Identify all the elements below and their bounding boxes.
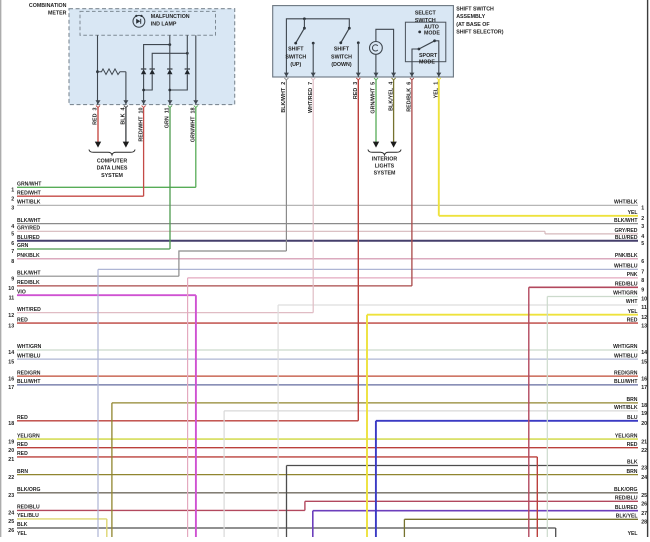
brace computer data lines system (89, 150, 135, 155)
wire YEL row R2 (439, 215, 638, 217)
svg-text:12: 12 (8, 313, 14, 319)
wire BLU row R20 (376, 420, 638, 422)
svg-text:GRY/RED: GRY/RED (17, 226, 40, 232)
svg-text:SPORT: SPORT (419, 53, 438, 59)
wire BLK row R23 (287, 465, 639, 467)
svg-text:YEL/GRN: YEL/GRN (17, 433, 40, 439)
page left border (0, 0, 2, 537)
wire BLK/YEL vert (403, 519, 405, 537)
wire lamp bottom to pin 5 (375, 54, 377, 77)
svg-text:METER: METER (48, 11, 67, 17)
node up switch pivot (303, 27, 306, 30)
svg-text:SWITCH: SWITCH (285, 54, 306, 60)
arrow RED to computer data lines (95, 142, 101, 148)
wire PNK row R8 (188, 277, 638, 279)
diode D1 (141, 69, 146, 74)
svg-text:SYSTEM: SYSTEM (101, 173, 123, 179)
svg-text:RED/BLU: RED/BLU (615, 282, 638, 288)
wire BLK vert (286, 466, 288, 538)
arrow BLK to computer data lines (123, 142, 129, 148)
svg-text:4: 4 (11, 224, 14, 230)
wire BLU/RED row L6-R5 (17, 240, 638, 242)
svg-text:BLU/WHT: BLU/WHT (614, 379, 638, 385)
wire GRN/WHT row L1 (17, 186, 196, 188)
svg-text:SHIFT: SHIFT (288, 47, 304, 53)
wire BRN row L22-R24 (17, 474, 638, 476)
wire RED row L20-R22 (17, 447, 638, 449)
wire YEL/BLU vert (106, 519, 108, 537)
svg-text:9: 9 (11, 276, 14, 282)
svg-text:8: 8 (11, 259, 14, 265)
svg-text:MODE: MODE (424, 31, 440, 37)
svg-text:RED: RED (17, 317, 28, 323)
svg-text:BLK/YEL: BLK/YEL (616, 514, 638, 520)
svg-text:24: 24 (8, 511, 14, 517)
svg-text:8: 8 (641, 278, 644, 284)
wire select to pin 6 (412, 49, 419, 77)
svg-text:SYSTEM: SYSTEM (374, 171, 396, 177)
svg-text:6: 6 (641, 259, 644, 265)
wire YEL/BLU row L25 (17, 518, 107, 520)
wire BLK vert bottom (555, 528, 557, 537)
wire D2 bottom jumper (144, 74, 153, 90)
svg-text:SHIFT: SHIFT (334, 47, 350, 53)
wire RED pin3 vert (357, 80, 359, 421)
svg-text:14: 14 (8, 350, 14, 356)
svg-text:BLU: BLU (627, 415, 638, 421)
svg-text:13: 13 (641, 323, 647, 329)
svg-text:14: 14 (641, 350, 647, 356)
node D1-D3 junction (168, 43, 171, 46)
wire BLK pin4 down (125, 108, 127, 143)
wire D1 top jumper (144, 45, 170, 69)
wire D2 top jumper (152, 53, 187, 69)
wire GRY/RED jog (544, 231, 546, 234)
svg-text:16: 16 (8, 376, 14, 382)
svg-text:MODE: MODE (419, 59, 435, 65)
wire RED/WHT pin10 vert (143, 108, 145, 197)
wire WHT/RED pin7 vert (312, 80, 314, 313)
svg-text:18: 18 (8, 421, 14, 427)
svg-text:BLK/ORG: BLK/ORG (614, 487, 638, 493)
svg-text:BLU/RED: BLU/RED (615, 235, 638, 241)
svg-text:BLU/RED: BLU/RED (17, 235, 40, 241)
wire WHT/BLU vert (97, 269, 99, 537)
svg-text:21: 21 (641, 439, 647, 445)
svg-text:SWITCH: SWITCH (331, 54, 352, 60)
node rail tap (303, 17, 306, 20)
svg-text:WHT/BLU: WHT/BLU (17, 353, 41, 359)
pin RED&#160;&#160;3 on shift switch assembly (356, 73, 361, 77)
wire BLK/WHT row L9 (17, 275, 179, 277)
wire WHT/GRN row R10 (547, 296, 638, 298)
wire GRY/RED row R4 right part (545, 233, 638, 235)
wire BLK/WHT row L4-R3 (17, 223, 638, 225)
svg-text:YEL/GRN: YEL/GRN (615, 433, 638, 439)
svg-text:15: 15 (8, 359, 14, 365)
node select blade lower (418, 48, 421, 51)
wire BRN vert (111, 403, 113, 537)
wire D3 lead to inner box (169, 35, 171, 69)
svg-text:SHIFT SWITCH: SHIFT SWITCH (456, 6, 494, 12)
wire WHT/BLK vert (223, 411, 225, 537)
node pin7 contact (312, 42, 315, 45)
svg-text:21: 21 (8, 457, 14, 463)
svg-text:MALFUNCTION: MALFUNCTION (151, 14, 190, 20)
wire RED row L18 (17, 420, 358, 422)
wire PNK vert (187, 278, 189, 537)
node down switch pivot (348, 27, 351, 30)
page right border (647, 0, 649, 537)
wire RED/BLU vert (528, 287, 530, 537)
svg-text:RED: RED (17, 415, 28, 421)
svg-text:PNK/BLK: PNK/BLK (17, 253, 40, 259)
svg-text:RED/BLU: RED/BLU (17, 505, 40, 511)
wire VIO row L11 (17, 294, 196, 296)
wire BLK/ORG row L23-R25 (17, 492, 638, 494)
svg-text:WHT/GRN: WHT/GRN (613, 344, 638, 350)
illumination lamp symbol (370, 42, 383, 55)
svg-text:BLU/WHT: BLU/WHT (17, 379, 41, 385)
svg-text:22: 22 (641, 448, 647, 454)
wire RED/BLU row L24 (17, 509, 305, 511)
svg-text:YEL: YEL (628, 309, 638, 315)
wire lamp right lead to pin 18 (195, 35, 197, 104)
node resistor left junction (96, 70, 99, 73)
select switch inner box (405, 22, 445, 62)
wire pin3 contact down (357, 43, 359, 77)
pin BLK/WHT&#160;&#160;2 on shift switch assembly (284, 73, 289, 77)
svg-text:(DOWN): (DOWN) (331, 62, 352, 68)
wire BLU/RED vert (312, 511, 314, 537)
pin 4 on combination meter (123, 100, 128, 104)
wire BLK/YEL row R28 (404, 518, 638, 520)
wire YEL/GRN row L19-R21 (17, 438, 638, 440)
svg-text:2: 2 (641, 216, 644, 222)
svg-text:INTERIOR: INTERIOR (372, 157, 397, 163)
svg-text:3: 3 (641, 224, 644, 230)
wire WHT/RED row L12 (17, 312, 313, 314)
node select blade upper (433, 39, 436, 42)
svg-text:RED/GRN: RED/GRN (17, 370, 41, 376)
wire WHT/BLU row R7 (98, 268, 638, 270)
node pin3 contact (357, 41, 360, 44)
switch blade select (419, 41, 435, 49)
wire WHT/GRN vert (546, 297, 548, 538)
wire BLU vert (375, 421, 377, 537)
svg-text:BRN: BRN (626, 397, 637, 403)
svg-text:27: 27 (641, 511, 647, 517)
svg-text:1: 1 (641, 206, 644, 212)
svg-text:WHT/BLK: WHT/BLK (17, 200, 41, 206)
pin WHT/RED&#160;&#160;7 on shift switch assembly (311, 73, 316, 77)
right wire color labels (613, 200, 638, 537)
svg-text:23: 23 (8, 493, 14, 499)
left wire color labels (17, 182, 42, 538)
wire RED/BLK row L10 (17, 285, 412, 287)
pin 3 on combination meter (96, 100, 101, 104)
svg-text:GRN: GRN (17, 243, 29, 249)
wire YEL row R12 (367, 314, 638, 316)
wire BLK/WHT pin2 vert (285, 80, 287, 251)
wire BRN row R18 (112, 402, 638, 404)
svg-text:(AT BASE OF: (AT BASE OF (456, 22, 490, 28)
pin RED/BLK&#160;&#160;6 on shift switch assembly (409, 73, 414, 77)
svg-text:GRY/RED: GRY/RED (614, 228, 637, 234)
svg-text:12: 12 (641, 315, 647, 321)
svg-text:25: 25 (641, 493, 647, 499)
wire select to pin 1 (435, 41, 439, 77)
switch blade shift up (296, 28, 305, 43)
svg-text:10: 10 (8, 286, 14, 292)
shift switch assembly box (273, 6, 454, 77)
wire BLU/RED row R27 (313, 510, 638, 512)
svg-text:15: 15 (641, 359, 647, 365)
svg-text:WHT: WHT (626, 299, 638, 305)
svg-text:WHT/GRN: WHT/GRN (613, 291, 638, 297)
wire PNK/BLK row L8-R6 (17, 258, 638, 260)
wire WHT row R11 (278, 304, 638, 306)
wire WHT/BLK row L3-R1 (17, 204, 638, 206)
svg-text:BLK/ORG: BLK/ORG (17, 487, 41, 493)
svg-text:6: 6 (11, 241, 14, 247)
wire D1 bottom to pin 10 (143, 74, 145, 104)
svg-text:17: 17 (641, 385, 647, 391)
svg-text:BLK/WHT: BLK/WHT (17, 270, 41, 276)
svg-text:5: 5 (11, 232, 14, 238)
node down switch blade end (339, 41, 342, 44)
wire BLK row L26 (17, 527, 556, 529)
combination meter box (69, 9, 235, 105)
svg-text:PNK/BLK: PNK/BLK (615, 253, 638, 259)
svg-text:RED: RED (627, 317, 638, 323)
svg-text:23: 23 (641, 466, 647, 472)
svg-text:20: 20 (8, 448, 14, 454)
diode D4 (185, 69, 190, 74)
svg-text:19: 19 (641, 411, 647, 417)
svg-text:YEL: YEL (17, 531, 27, 537)
wire RED/BLU jog vert (304, 501, 306, 510)
diode D3 (167, 69, 172, 74)
svg-text:YEL/BLU: YEL/BLU (17, 513, 39, 519)
wire YEL pin1 vert (438, 80, 440, 216)
svg-text:24: 24 (641, 475, 647, 481)
svg-text:22: 22 (8, 475, 14, 481)
svg-text:9: 9 (641, 288, 644, 294)
svg-text:RED: RED (627, 442, 638, 448)
wire WHT vert (277, 305, 279, 537)
wire RED row L13-R13 (17, 322, 638, 324)
wire BLU/WHT row L17-R17 (17, 384, 638, 386)
wire RED pin3 down (97, 108, 99, 143)
wire resistor to pin 4 (125, 72, 127, 105)
svg-text:28: 28 (641, 520, 647, 526)
svg-text:11: 11 (9, 295, 15, 301)
left wire number labels (8, 188, 14, 542)
pin BLK/YEL&#160;&#160;4 on shift switch assembly (391, 73, 396, 77)
wire RED/BLU row R26 (305, 500, 638, 502)
diode D2 (150, 69, 155, 74)
svg-text:5: 5 (641, 241, 644, 247)
wire VIO vert (195, 295, 197, 537)
svg-text:1: 1 (11, 188, 14, 194)
node pin11 lower junction (168, 89, 171, 92)
svg-text:IND LAMP: IND LAMP (151, 22, 177, 28)
node up switch blade end (294, 42, 297, 45)
wire YEL vert (366, 315, 368, 537)
pin YEL&#160;&#160;1 on shift switch assembly (436, 73, 441, 77)
pin GRN/WHT&#160;&#160;5 on shift switch assembly (374, 73, 379, 77)
svg-text:18: 18 (641, 403, 647, 409)
wire WHT/BLU row L15-R15 (17, 358, 638, 360)
svg-text:BLK/WHT: BLK/WHT (614, 218, 638, 224)
wire common rail (286, 19, 349, 77)
arrow GRN/WHT to interior lights (373, 142, 379, 148)
switch blade shift down (341, 28, 350, 43)
arrow BLK/YEL to interior lights (390, 142, 396, 148)
svg-text:WHT/BLK: WHT/BLK (614, 405, 638, 411)
svg-text:SWITCH: SWITCH (415, 18, 436, 24)
svg-text:DATA LINES: DATA LINES (97, 166, 128, 172)
svg-text:WHT/BLK: WHT/BLK (614, 200, 638, 206)
wire rail stub up switch (303, 19, 305, 28)
svg-text:20: 20 (641, 421, 647, 427)
svg-text:10: 10 (641, 297, 647, 303)
svg-text:19: 19 (8, 439, 14, 445)
svg-text:BRN: BRN (17, 469, 28, 475)
svg-text:YEL: YEL (628, 210, 638, 216)
svg-text:BLK: BLK (627, 460, 638, 466)
wire WHT/BLK row R19 (224, 410, 638, 412)
wire RED/GRN row L16-R16 (17, 375, 638, 377)
wire RED row L21 (17, 456, 537, 458)
svg-text:RED/BLK: RED/BLK (17, 280, 40, 286)
pin 11 on combination meter (168, 100, 173, 104)
svg-text:ASSEMBLY: ASSEMBLY (456, 14, 485, 20)
malfunction ind lamp inner box (80, 11, 216, 35)
svg-text:WHT/RED: WHT/RED (17, 307, 41, 313)
wire lamp left lead to pin 3 (97, 35, 99, 104)
wire D4 lead to inner box (186, 35, 188, 69)
wire RED/BLU row R9 (529, 286, 638, 288)
svg-text:WHT/BLU: WHT/BLU (614, 264, 638, 270)
svg-text:RED/GRN: RED/GRN (614, 370, 638, 376)
svg-text:2: 2 (11, 196, 14, 202)
svg-text:RED: RED (17, 442, 28, 448)
wire GRN/WHT pin18 vert (195, 108, 197, 188)
svg-text:17: 17 (8, 385, 14, 391)
svg-text:WHT/BLU: WHT/BLU (614, 353, 638, 359)
svg-text:BRN: BRN (626, 469, 637, 475)
svg-text:VIO: VIO (17, 289, 26, 295)
wire RED/BLK pin6 vert (411, 80, 413, 286)
svg-text:13: 13 (8, 323, 14, 329)
pin 18 on combination meter (193, 100, 198, 104)
node auto mode contact (418, 31, 421, 34)
svg-text:16: 16 (641, 376, 647, 382)
svg-text:PNK: PNK (627, 272, 638, 278)
svg-text:7: 7 (11, 249, 14, 255)
node D2-D4 junction (186, 52, 189, 55)
svg-text:11: 11 (641, 305, 647, 311)
wire pin7 contact down (312, 43, 314, 77)
svg-text:WHT/GRN: WHT/GRN (17, 344, 42, 350)
svg-text:(UP): (UP) (290, 62, 301, 68)
node pin10 lower junction (142, 89, 145, 92)
svg-text:BLK/WHT: BLK/WHT (17, 218, 41, 224)
wire D4 bottom jumper (170, 74, 188, 90)
svg-text:7: 7 (641, 270, 644, 276)
svg-text:RED/WHT: RED/WHT (17, 190, 42, 196)
malfunction ind lamp symbol (133, 15, 145, 27)
svg-text:COMPUTER: COMPUTER (97, 159, 127, 165)
svg-text:COMBINATION: COMBINATION (29, 3, 67, 9)
svg-text:4: 4 (641, 234, 644, 240)
svg-text:26: 26 (641, 502, 647, 508)
svg-text:RED/BLU: RED/BLU (615, 496, 638, 502)
wire GRN row L7 (17, 248, 170, 250)
wire lamp top to pin 4 (376, 29, 394, 77)
wire D3 bottom to pin 11 (169, 74, 171, 104)
wire GRN pin11 vert (169, 108, 171, 249)
resistor R in combination meter (98, 69, 126, 75)
brace interior lights system (368, 150, 401, 155)
right wire number labels (641, 206, 647, 542)
svg-text:25: 25 (8, 519, 14, 525)
pin 10 on combination meter (141, 100, 146, 104)
wire WHT/GRN row L14-R14 (17, 349, 638, 351)
svg-text:YEL: YEL (628, 531, 638, 537)
svg-text:RED: RED (17, 451, 28, 457)
svg-text:BLK: BLK (17, 522, 28, 528)
wire RED/WHT row L2 (17, 195, 144, 197)
wire BLK/YEL pin4 down (393, 80, 395, 142)
wire GRY/RED row L5 left part (17, 230, 545, 232)
wire RED vert (536, 457, 538, 537)
svg-text:LIGHTS: LIGHTS (375, 164, 395, 170)
svg-text:26: 26 (8, 528, 14, 534)
svg-text:GRN/WHT: GRN/WHT (17, 182, 42, 188)
wire GRN/WHT pin5 down (375, 80, 377, 142)
svg-text:3: 3 (11, 206, 14, 212)
svg-text:SELECT: SELECT (415, 10, 437, 16)
svg-text:BLU/RED: BLU/RED (615, 505, 638, 511)
wire BLK/WHT jog (179, 251, 287, 276)
svg-text:SHIFT SELECTOR): SHIFT SELECTOR) (456, 30, 504, 36)
